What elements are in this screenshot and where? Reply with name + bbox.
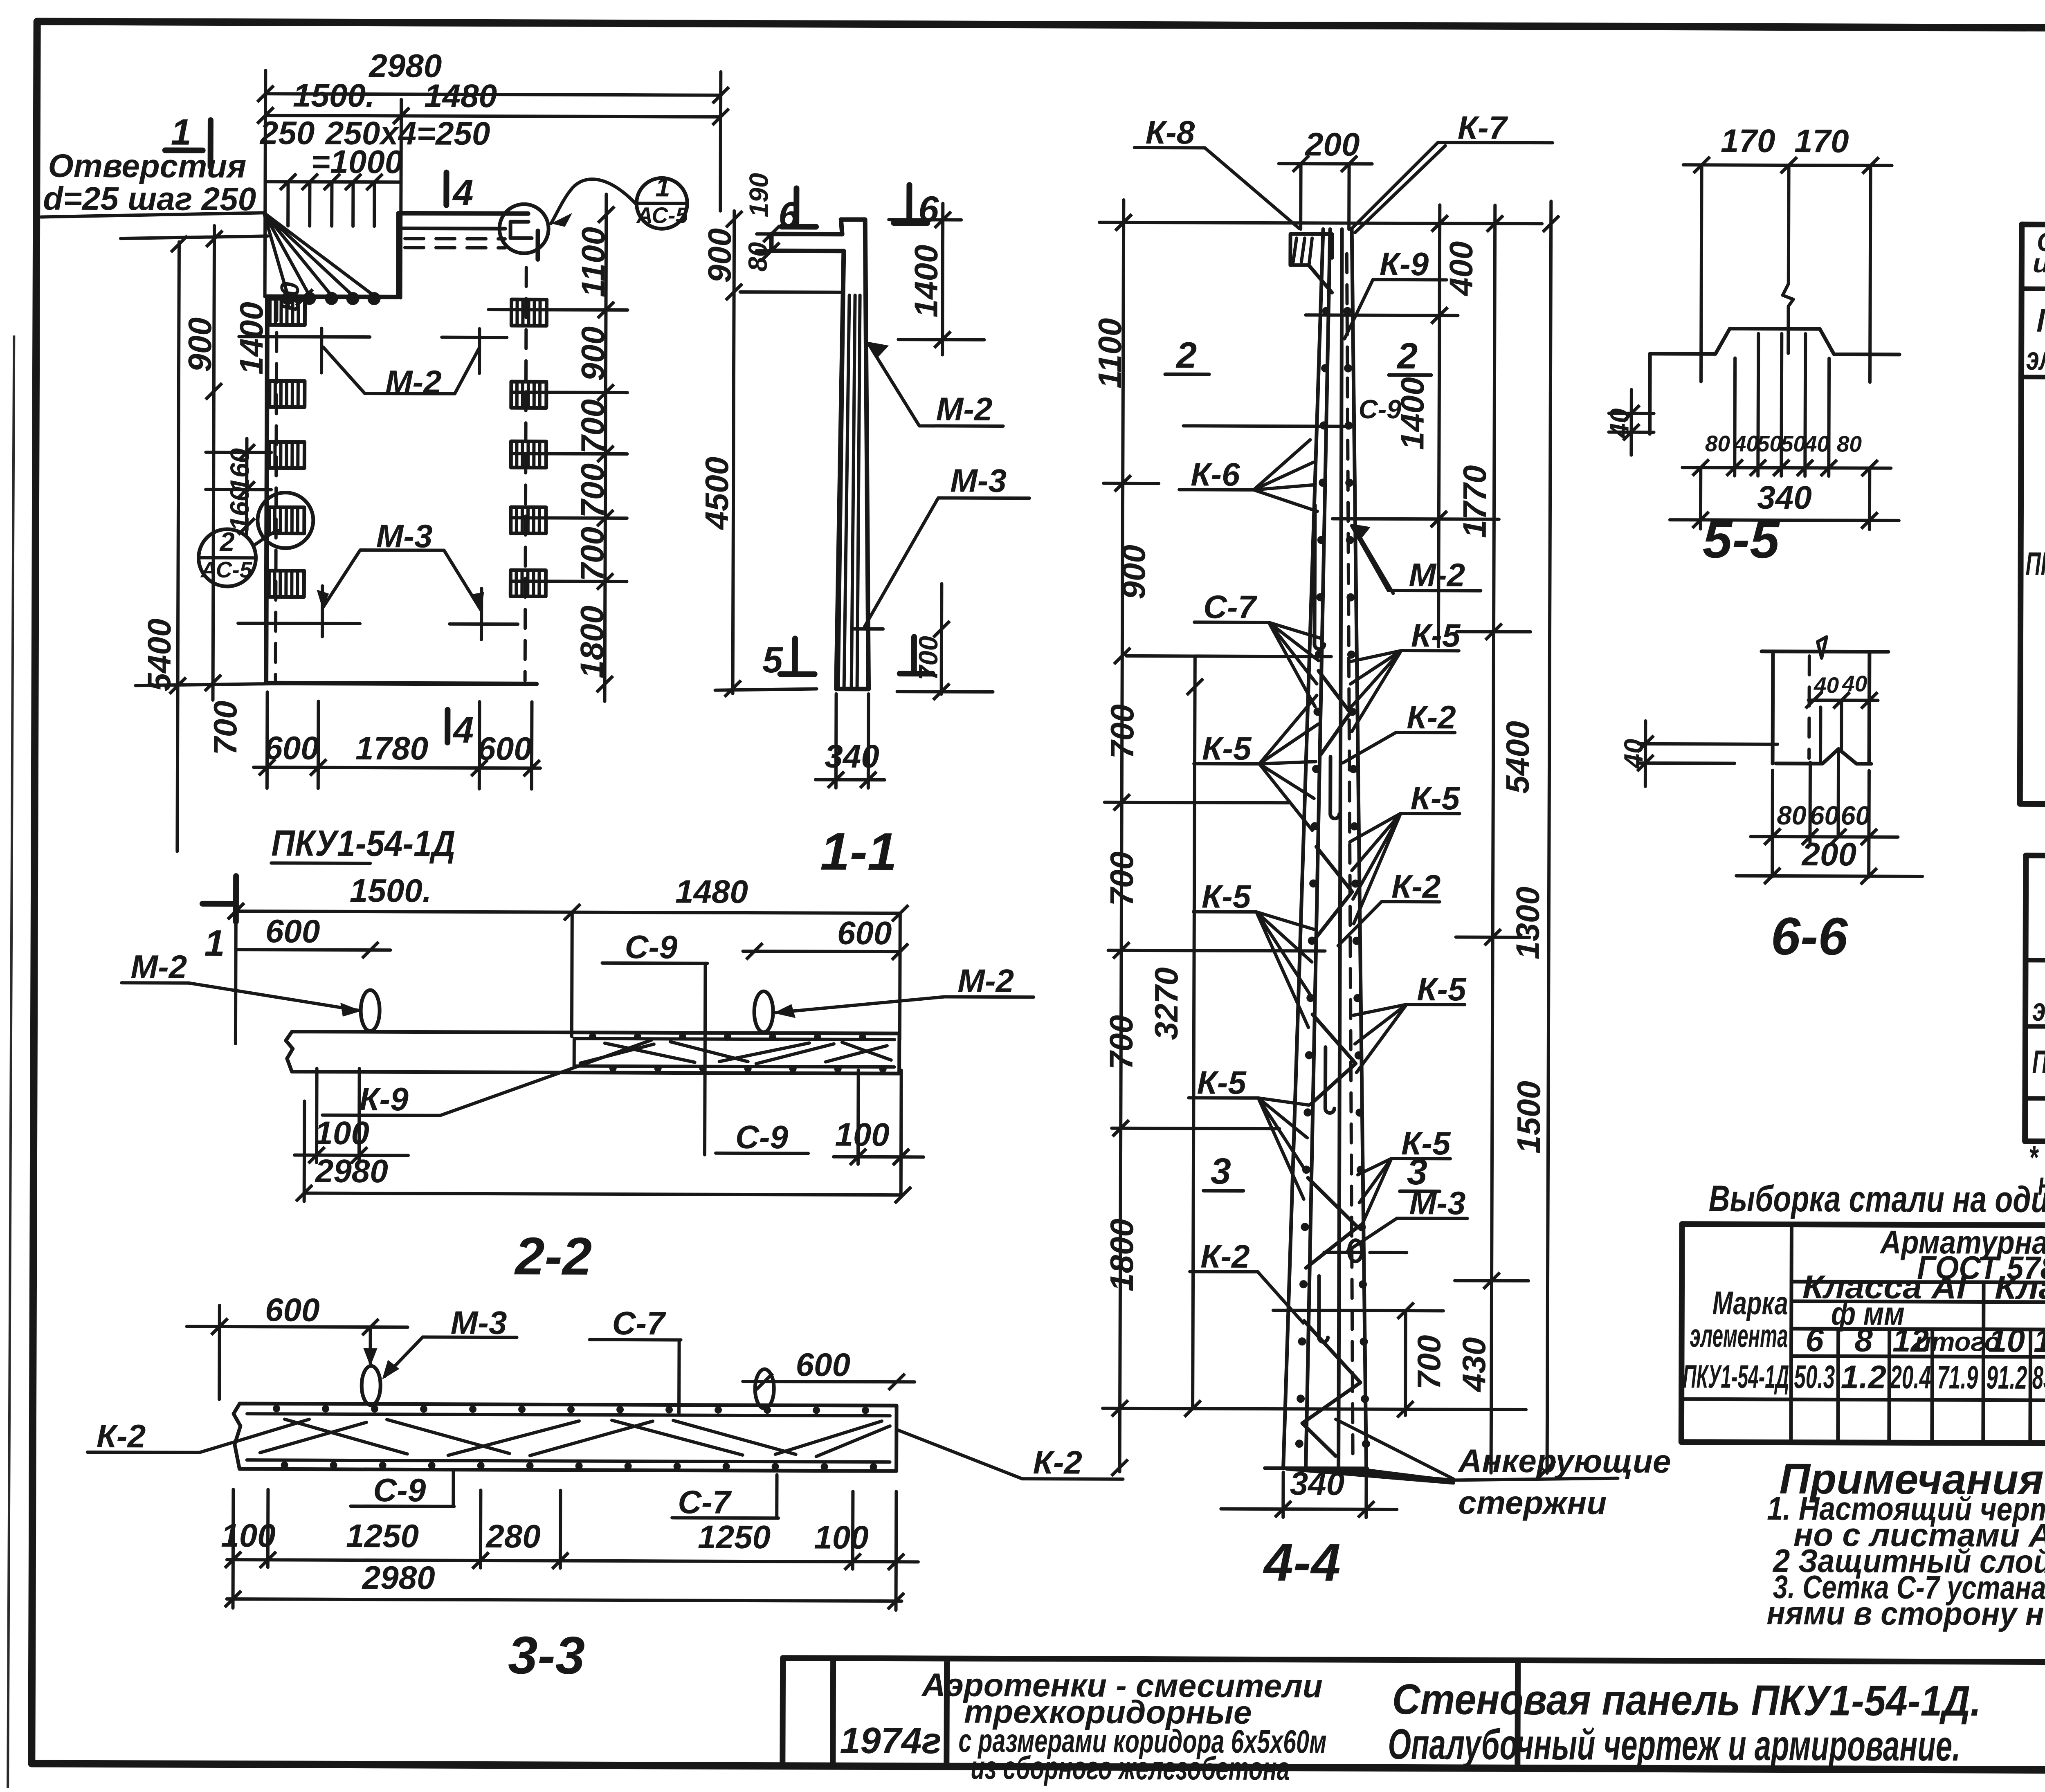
section mark 4 (top) <box>443 173 449 205</box>
section mark 1 (bottom) <box>202 876 236 922</box>
svg-text:80: 80 <box>1777 800 1807 830</box>
profile 5-5 <box>1650 328 1899 355</box>
svg-text:900: 900 <box>182 317 218 372</box>
svg-text:К-2: К-2 <box>1200 1238 1250 1274</box>
column hatch fill lines <box>838 293 860 689</box>
svg-text:12: 12 <box>2034 1323 2045 1359</box>
svg-text:2980: 2980 <box>362 1559 435 1596</box>
svg-text:50: 50 <box>1757 431 1782 456</box>
X dashes 2-2 <box>580 1042 891 1064</box>
svg-text:340: 340 <box>1290 1465 1345 1502</box>
svg-text:С-9: С-9 <box>373 1472 426 1508</box>
svg-text:83.2: 83.2 <box>2032 1359 2045 1396</box>
panel outline plan <box>266 213 538 684</box>
top bar lower edge <box>398 227 505 231</box>
svg-text:1300: 1300 <box>1510 887 1546 959</box>
svg-text:ПКУ1-54-1Д: ПКУ1-54-1Д <box>271 823 455 864</box>
svg-text:К-5: К-5 <box>1202 878 1252 914</box>
svg-text:4: 4 <box>452 710 474 751</box>
svg-text:600: 600 <box>796 1346 851 1383</box>
panel inner dashed edges <box>276 267 526 680</box>
bottom edge <box>1265 1466 1367 1470</box>
svg-text:160: 160 <box>225 448 254 493</box>
svg-text:1100: 1100 <box>1092 318 1128 388</box>
svg-text:К-7: К-7 <box>1458 109 1508 146</box>
svg-text:АС-5: АС-5 <box>200 557 253 582</box>
svg-text:340: 340 <box>825 738 879 775</box>
svg-text:1250: 1250 <box>698 1519 771 1556</box>
fan of hole leaders <box>264 213 375 296</box>
svg-text:1.2: 1.2 <box>1841 1359 1886 1395</box>
table1 frame <box>2020 225 2045 805</box>
svg-text:3: 3 <box>1211 1151 1231 1192</box>
svg-text:700: 700 <box>574 463 611 518</box>
svg-text:из сборного железобетона: из сборного железобетона <box>971 1749 1290 1787</box>
svg-text:700: 700 <box>913 636 943 680</box>
svg-text:100: 100 <box>835 1116 890 1153</box>
svg-text:=1000: =1000 <box>311 144 403 180</box>
svg-text:700: 700 <box>574 399 611 454</box>
svg-text:40: 40 <box>1733 431 1759 456</box>
svg-text:К-5: К-5 <box>1417 971 1467 1007</box>
svg-text:М-2: М-2 <box>1409 557 1465 593</box>
svg-text:элемента: элемента <box>2032 991 2045 1028</box>
svg-text:1: 1 <box>171 112 191 153</box>
svg-text:К-2: К-2 <box>1033 1444 1083 1480</box>
svg-text:ПКУ1-54-1Д: ПКУ1-54-1Д <box>2025 546 2045 582</box>
svg-text:60: 60 <box>1809 800 1839 830</box>
dim 4500 <box>733 305 734 694</box>
svg-text:1400: 1400 <box>908 245 944 317</box>
svg-text:71.9: 71.9 <box>1937 1359 1978 1395</box>
svg-text:280: 280 <box>485 1518 541 1554</box>
svg-text:Марка: Марка <box>2036 302 2045 339</box>
svg-text:80: 80 <box>1837 431 1862 456</box>
svg-text:40: 40 <box>1842 671 1867 696</box>
right edge combs <box>511 299 546 326</box>
top bent plate detail <box>1290 234 1332 292</box>
svg-text:1480: 1480 <box>675 873 748 910</box>
svg-text:3-3: 3-3 <box>508 1625 585 1685</box>
svg-text:К-6: К-6 <box>1191 456 1240 492</box>
svg-text:3270: 3270 <box>1148 967 1185 1040</box>
svg-text:1480: 1480 <box>424 78 497 115</box>
svg-text:700: 700 <box>1104 704 1140 759</box>
section mark 4 (bottom) <box>445 710 450 743</box>
dim 900 (1-1) <box>733 211 736 305</box>
sub dims 80 40 50 50 40 80 <box>1735 334 1829 476</box>
svg-text:1500: 1500 <box>1510 1081 1547 1154</box>
svg-text:К-2: К-2 <box>97 1418 146 1454</box>
svg-text:8: 8 <box>1854 1322 1873 1359</box>
svg-text:1100: 1100 <box>575 227 612 297</box>
svg-text:5400: 5400 <box>141 618 178 691</box>
svg-text:1800: 1800 <box>1103 1219 1140 1291</box>
svg-text:91.2: 91.2 <box>1986 1359 2027 1396</box>
svg-text:600: 600 <box>837 915 892 951</box>
hole dots <box>281 292 294 305</box>
svg-text:160: 160 <box>225 487 254 531</box>
svg-text:1800: 1800 <box>574 606 611 678</box>
svg-text:2: 2 <box>1396 336 1418 377</box>
svg-text:2-2: 2-2 <box>514 1226 592 1286</box>
svg-text:20.4: 20.4 <box>1890 1359 1931 1395</box>
svg-text:250: 250 <box>259 115 315 151</box>
svg-text:200: 200 <box>1304 126 1360 162</box>
svg-text:1: 1 <box>204 923 225 964</box>
table3 frame <box>1681 1224 2045 1444</box>
hook loops inside gap <box>1312 505 1340 1342</box>
svg-text:900: 900 <box>1115 545 1152 600</box>
svg-text:К-9: К-9 <box>1380 246 1429 282</box>
svg-text:190: 190 <box>744 173 773 218</box>
160 160 left small chain <box>245 438 249 537</box>
svg-text:200: 200 <box>1801 836 1856 872</box>
left dim chain 900 <box>214 226 214 410</box>
svg-text:С-7: С-7 <box>678 1484 732 1520</box>
M-2 anchor callout (plan) <box>321 328 479 394</box>
svg-text:К-8: К-8 <box>1146 114 1195 150</box>
profile 6-6 <box>1761 651 1888 764</box>
dim 1400 (1-1) <box>942 203 943 355</box>
svg-text:5400: 5400 <box>1499 721 1536 794</box>
svg-text:1780: 1780 <box>355 730 428 767</box>
svg-text:К-5: К-5 <box>1411 780 1461 816</box>
svg-text:С-7: С-7 <box>1203 589 1258 625</box>
right chains 4-4 <box>1438 205 1440 647</box>
left strip edges <box>1283 229 1330 1467</box>
svg-text:К-5: К-5 <box>1411 617 1461 653</box>
svg-text:d=25 шаг 250: d=25 шаг 250 <box>43 180 256 218</box>
svg-text:1500.: 1500. <box>350 872 431 909</box>
table3 horizontals <box>1681 1249 2045 1401</box>
inner chain 3270 <box>1193 656 1195 1408</box>
svg-text:2: 2 <box>219 527 235 557</box>
svg-text:М-2: М-2 <box>957 963 1014 999</box>
svg-text:50: 50 <box>274 282 304 312</box>
svg-text:М-2: М-2 <box>936 391 993 427</box>
X dashes 3-3 <box>260 1419 890 1457</box>
svg-text:стержни: стержни <box>1458 1484 1607 1521</box>
leader curve from callout to detail circle <box>551 179 636 224</box>
svg-text:М-3: М-3 <box>451 1305 507 1341</box>
svg-text:Класса АIII: Класса АIII <box>1995 1269 2045 1306</box>
svg-text:Стеновая панель ПКУ1-54-1Д.: Стеновая панель ПКУ1-54-1Д. <box>1392 1675 1981 1725</box>
svg-text:6-6: 6-6 <box>1771 906 1848 966</box>
svg-text:50: 50 <box>1781 431 1806 456</box>
svg-text:4: 4 <box>452 173 473 213</box>
svg-text:40: 40 <box>1804 431 1830 456</box>
svg-text:60: 60 <box>1840 800 1870 830</box>
svg-text:1500.: 1500. <box>293 77 375 114</box>
svg-text:Марка: Марка <box>1712 1284 1788 1321</box>
svg-text:и закладных изделий на: и закладных изделий на <box>2033 248 2045 279</box>
svg-text:170: 170 <box>1794 123 1849 159</box>
M-3 oval right 3-3 <box>755 1369 774 1408</box>
paper edge shadow left <box>8 335 14 1788</box>
svg-text:600: 600 <box>265 1291 320 1328</box>
circle around comb <box>258 492 313 548</box>
svg-text:М-2: М-2 <box>130 948 187 985</box>
svg-text:М-3: М-3 <box>950 463 1007 499</box>
svg-text:1250: 1250 <box>346 1518 419 1554</box>
5400 far left chain <box>177 242 179 851</box>
svg-text:4-4: 4-4 <box>1263 1532 1341 1592</box>
svg-text:К-5: К-5 <box>1202 730 1252 766</box>
svg-text:900: 900 <box>701 228 738 283</box>
svg-text:Опалубочный чертеж и армирова: Опалубочный чертеж и армирование. <box>1388 1720 1960 1770</box>
M-2 leader (1-1) <box>869 344 1004 426</box>
svg-text:элемента: элемента <box>1690 1317 1788 1354</box>
svg-text:С-9: С-9 <box>625 929 678 965</box>
svg-text:К-2: К-2 <box>1391 868 1441 905</box>
svg-text:40: 40 <box>1814 672 1839 698</box>
title block frame <box>782 1658 2045 1771</box>
svg-text:М-2: М-2 <box>385 364 442 400</box>
svg-text:100: 100 <box>315 1115 369 1151</box>
left dim chain 1400 <box>263 242 267 296</box>
svg-text:400: 400 <box>1443 241 1479 297</box>
M-3 anchor callout (plan) <box>322 550 482 640</box>
svg-text:700: 700 <box>1411 1335 1447 1390</box>
section 1-1 column outline <box>770 219 870 689</box>
svg-text:700: 700 <box>1103 851 1140 906</box>
svg-text:50.3: 50.3 <box>1794 1359 1835 1395</box>
svg-text:Анкерующие: Анкерующие <box>1458 1442 1671 1480</box>
left 40 (6-6) <box>1638 744 1778 744</box>
svg-text:170: 170 <box>1721 122 1775 159</box>
table3 verticals <box>1791 1224 2045 1444</box>
svg-text:ПКУ1-54-1Д: ПКУ1-54-1Д <box>1683 1358 1789 1395</box>
dim 340 (4-4) <box>1283 1472 1366 1518</box>
reinforced box 2-2 <box>574 1039 894 1067</box>
left edge combs <box>270 299 305 325</box>
svg-text:430: 430 <box>1456 1337 1492 1393</box>
table2 frame <box>2025 856 2045 1143</box>
right strip edges <box>1338 229 1371 1468</box>
svg-text:элемента: элемента <box>2026 340 2045 377</box>
svg-text:5-5: 5-5 <box>1703 509 1780 569</box>
svg-text:К-9: К-9 <box>359 1081 409 1117</box>
top bar dashed pair <box>405 238 505 248</box>
callout circle 2/AC-5 <box>198 529 256 586</box>
svg-text:Выборка стали на один жел: Выборка стали на один железобетонный эле… <box>1709 1178 2045 1222</box>
svg-text:900: 900 <box>575 326 611 381</box>
rebar dots left strip <box>1295 307 1374 1448</box>
anchor rods fan <box>1286 1419 1453 1483</box>
svg-text:2980: 2980 <box>315 1153 388 1190</box>
svg-text:С-7: С-7 <box>612 1305 667 1341</box>
chord boxes 3-3 <box>247 1414 890 1462</box>
svg-text:700: 700 <box>207 701 243 755</box>
svg-text:К-2: К-2 <box>1407 699 1456 735</box>
svg-text:АС-5: АС-5 <box>636 202 688 228</box>
svg-text:700: 700 <box>1103 1015 1139 1070</box>
svg-text:80: 80 <box>1705 431 1730 456</box>
svg-text:100: 100 <box>814 1519 869 1556</box>
svg-text:1-1: 1-1 <box>820 822 897 882</box>
dim 340 (1-1) <box>836 694 869 788</box>
svg-text:ПКУ1-54-1Д: ПКУ1-54-1Д <box>2032 1044 2045 1080</box>
M-3 leader (1-1) <box>865 498 1029 627</box>
svg-text:С-9: С-9 <box>735 1119 789 1155</box>
svg-text:С-9: С-9 <box>1359 394 1402 424</box>
chevron bars between strips <box>1302 671 1363 1456</box>
svg-text:М-3: М-3 <box>376 518 433 554</box>
svg-text:М-3: М-3 <box>1409 1185 1466 1221</box>
svg-text:2: 2 <box>1175 335 1197 376</box>
dim 700 (1-1 bottom) <box>940 584 944 694</box>
elevation top line <box>1099 222 1542 224</box>
svg-text:700: 700 <box>574 527 610 582</box>
strip outline 3-3 <box>234 1404 897 1471</box>
detail circle on bar end <box>499 204 548 253</box>
svg-text:Отверстия: Отверстия <box>48 148 246 185</box>
700 430 bottom right <box>1273 1310 1443 1311</box>
svg-text:К-5: К-5 <box>1197 1064 1247 1100</box>
svg-text:1974г: 1974г <box>840 1720 942 1762</box>
svg-text:нями в сторону нижнего тор: нями в сторону нижнего торца панели. <box>1766 1595 2045 1633</box>
svg-text:1: 1 <box>655 172 670 202</box>
left chain 4-4 <box>1120 200 1124 1472</box>
svg-text:80: 80 <box>743 242 773 272</box>
callout circle 1/AC-5 <box>636 178 687 229</box>
svg-text:1770: 1770 <box>1456 465 1493 538</box>
strip outline 2-2 <box>286 1031 899 1073</box>
right dim chain <box>605 194 606 701</box>
svg-text:6: 6 <box>1805 1322 1824 1358</box>
svg-text:итого: итого <box>1915 1327 2000 1357</box>
svg-text:10: 10 <box>1989 1323 2025 1359</box>
M-3 oval 3-3 <box>362 1366 380 1405</box>
svg-text:4500: 4500 <box>699 457 735 530</box>
M-2 ovals 2-2 <box>361 990 380 1031</box>
svg-text:600: 600 <box>265 913 320 949</box>
